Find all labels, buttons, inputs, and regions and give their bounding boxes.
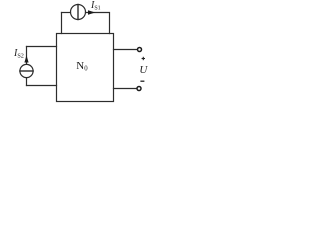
wire	[27, 85, 57, 87]
current source I_S1	[71, 5, 86, 20]
wire	[114, 49, 138, 51]
svg-text:N0: N0	[76, 60, 88, 73]
wire	[26, 47, 28, 65]
wire	[61, 13, 63, 34]
terminal -	[137, 87, 141, 91]
wire	[27, 46, 57, 48]
network box N0	[57, 34, 114, 102]
arrow I_S1	[88, 10, 95, 14]
current source I_S2	[20, 64, 33, 77]
terminal +	[138, 48, 142, 52]
label -	[140, 80, 144, 82]
svg-text:IS2: IS2	[13, 48, 24, 59]
svg-text:IS1: IS1	[90, 0, 101, 11]
wire	[62, 12, 71, 14]
arrow I_S2	[24, 55, 28, 62]
wire	[86, 13, 110, 34]
label +	[142, 57, 145, 60]
svg-text:U: U	[139, 64, 148, 76]
wire	[26, 78, 28, 86]
wire	[114, 88, 137, 90]
